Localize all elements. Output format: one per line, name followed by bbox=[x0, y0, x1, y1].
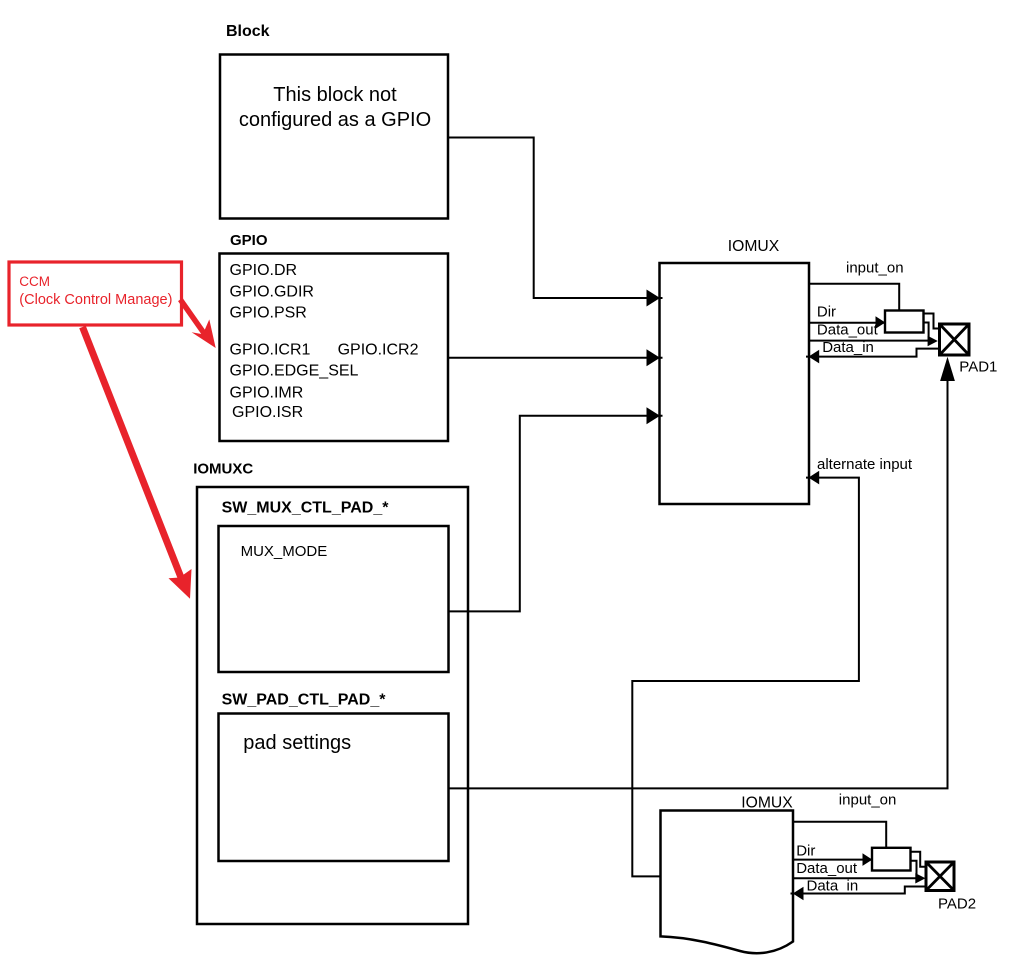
wire pad settings to PAD1 bbox=[449, 380, 948, 788]
svg-text:(Clock Control Manage): (Clock Control Manage) bbox=[19, 292, 172, 308]
red arrow CCM to IOMUXC bbox=[83, 327, 192, 599]
svg-text:This block not: This block not bbox=[273, 84, 397, 106]
red arrow CCM to GPIO.ICR1 bbox=[180, 300, 215, 349]
wire Data_out (upper) bbox=[809, 340, 928, 342]
svg-text:pad settings: pad settings bbox=[243, 732, 351, 754]
wire Data_out (lower) bbox=[793, 877, 916, 879]
svg-text:PAD1: PAD1 bbox=[959, 358, 997, 375]
wire Block to IOMUX bbox=[448, 138, 663, 299]
svg-text:Block: Block bbox=[226, 23, 270, 40]
svg-text:GPIO.IMR: GPIO.IMR bbox=[230, 385, 304, 402]
block IOMUXC (box) bbox=[197, 487, 468, 924]
arrowhead Data_in into IOMUX2 bbox=[793, 887, 804, 901]
register box pad settings bbox=[219, 714, 449, 862]
wire buffer to PAD2 (lower step a) bbox=[911, 852, 927, 867]
wire alternate input (IOMUX2 to IOMUX1) bbox=[632, 478, 859, 877]
wire Data_in (upper) bbox=[806, 349, 940, 357]
register box MUX_MODE bbox=[219, 526, 449, 672]
arrowhead into PAD1 bottom bbox=[940, 357, 955, 381]
svg-text:GPIO.ISR: GPIO.ISR bbox=[232, 404, 303, 421]
svg-text:Dir: Dir bbox=[817, 304, 836, 321]
pad PAD1 (X box) bbox=[940, 324, 970, 355]
arrowhead Dir into buffer (lower) bbox=[863, 853, 873, 866]
svg-text:IOMUX: IOMUX bbox=[741, 795, 793, 812]
block Block (box) bbox=[220, 55, 448, 219]
wire buffer to Data_out junction (lower step b) bbox=[911, 861, 917, 879]
arrowhead into IOMUX (from MUX_MODE) bbox=[647, 407, 661, 424]
svg-text:GPIO.EDGE_SEL: GPIO.EDGE_SEL bbox=[230, 362, 359, 379]
svg-text:GPIO: GPIO bbox=[230, 232, 268, 249]
svg-text:GPIO.ICR2: GPIO.ICR2 bbox=[338, 341, 419, 358]
svg-text:SW_MUX_CTL_PAD_*: SW_MUX_CTL_PAD_* bbox=[222, 500, 390, 517]
wire Data_in (lower) bbox=[791, 887, 927, 894]
wire Dir (upper) bbox=[809, 322, 886, 324]
wire buffer to PAD1 (upper step a) bbox=[924, 314, 940, 329]
arrowhead into IOMUX (from Block) bbox=[647, 290, 661, 307]
wire input_on (upper) bbox=[809, 284, 899, 310]
svg-text:MUX_MODE: MUX_MODE bbox=[241, 543, 328, 560]
svg-text:configured as a GPIO: configured as a GPIO bbox=[239, 109, 431, 131]
buffer U1 (pad driver upper) bbox=[885, 311, 924, 333]
svg-text:Data_in: Data_in bbox=[807, 877, 859, 894]
svg-text:IOMUX: IOMUX bbox=[728, 238, 780, 255]
mux IOMUX upper (box) bbox=[660, 263, 810, 504]
svg-text:input_on: input_on bbox=[839, 791, 897, 808]
svg-text:GPIO.GDIR: GPIO.GDIR bbox=[230, 284, 314, 301]
svg-text:GPIO.DR: GPIO.DR bbox=[230, 262, 298, 279]
arrowhead Data_out into PAD1 bbox=[928, 336, 938, 346]
svg-text:SW_PAD_CTL_PAD_*: SW_PAD_CTL_PAD_* bbox=[222, 692, 387, 709]
svg-text:Data_in: Data_in bbox=[822, 339, 874, 356]
svg-text:GPIO.PSR: GPIO.PSR bbox=[230, 304, 307, 321]
wire input_on (lower) bbox=[793, 822, 886, 847]
callout CCM box bbox=[9, 262, 182, 325]
svg-text:alternate input: alternate input bbox=[817, 456, 913, 473]
wire GPIO to IOMUX bbox=[448, 357, 663, 359]
svg-text:Dir: Dir bbox=[796, 843, 815, 860]
svg-text:Data_out: Data_out bbox=[817, 322, 879, 339]
block GPIO (box) bbox=[220, 254, 449, 442]
wire Dir (lower) bbox=[793, 859, 873, 861]
pad PAD2 (X box) bbox=[926, 862, 954, 891]
arrowhead Data_in into IOMUX1 bbox=[809, 350, 820, 364]
svg-text:input_on: input_on bbox=[846, 259, 904, 276]
arrowhead into IOMUX (from GPIO) bbox=[647, 349, 661, 366]
svg-text:CCM: CCM bbox=[19, 274, 50, 289]
buffer U2 (pad driver lower) bbox=[872, 848, 911, 871]
mux IOMUX lower torn box bbox=[661, 811, 794, 954]
arrowhead Data_out into PAD2 bbox=[915, 873, 925, 883]
wire buffer to Data_out junction (upper step b) bbox=[924, 323, 929, 341]
arrowhead alternate input into IOMUX1 bbox=[809, 471, 820, 485]
svg-text:GPIO.ICR1: GPIO.ICR1 bbox=[230, 341, 311, 358]
wire MUX_MODE to IOMUX bbox=[449, 416, 663, 612]
svg-text:PAD2: PAD2 bbox=[938, 895, 976, 912]
arrowhead Dir into buffer (upper) bbox=[876, 316, 886, 329]
svg-text:Data_out: Data_out bbox=[796, 860, 858, 877]
svg-text:IOMUXC: IOMUXC bbox=[193, 460, 253, 477]
